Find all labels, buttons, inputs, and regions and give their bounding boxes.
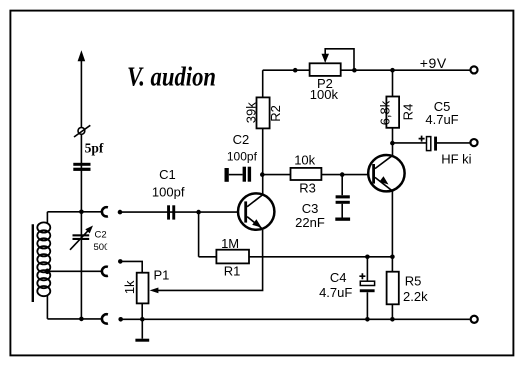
svg-text:C2: C2 [233, 132, 250, 147]
svg-text:R5: R5 [405, 273, 422, 288]
svg-text:22nF: 22nF [295, 215, 325, 230]
svg-text:C3: C3 [302, 201, 319, 216]
svg-text:R1: R1 [224, 264, 241, 279]
svg-text:C2: C2 [95, 229, 107, 240]
svg-text:39k: 39k [243, 102, 258, 123]
svg-text:1M: 1M [221, 236, 239, 251]
svg-text:HF ki: HF ki [441, 151, 471, 166]
svg-text:C1: C1 [159, 167, 176, 182]
svg-text:+9V: +9V [420, 55, 447, 71]
svg-text:V. audion: V. audion [127, 62, 216, 92]
svg-text:R3: R3 [299, 181, 316, 196]
svg-text:C4: C4 [330, 270, 347, 285]
svg-text:5pf: 5pf [85, 141, 104, 156]
svg-text:1k: 1k [122, 280, 137, 294]
svg-text:500: 500 [94, 242, 110, 253]
svg-text:100k: 100k [310, 87, 339, 102]
svg-text:P1: P1 [154, 268, 170, 283]
svg-text:2.2k: 2.2k [403, 289, 428, 304]
svg-text:4.7uF: 4.7uF [425, 112, 458, 127]
svg-text:10k: 10k [294, 153, 315, 168]
svg-text:100pf: 100pf [152, 185, 185, 200]
svg-text:4.7uF: 4.7uF [319, 285, 352, 300]
svg-text:R2: R2 [268, 105, 283, 122]
svg-text:R4: R4 [401, 104, 416, 121]
svg-text:100pf: 100pf [227, 150, 258, 164]
svg-text:6,8k: 6,8k [378, 100, 393, 125]
